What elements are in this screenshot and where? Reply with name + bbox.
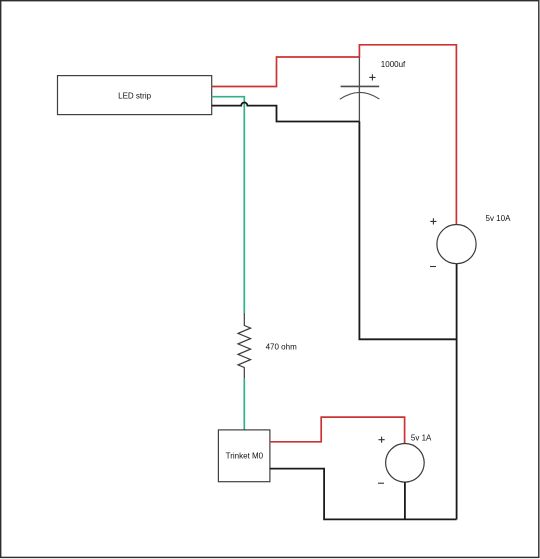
capacitor C1 1000uf (340, 57, 380, 122)
wire black: Trinket M0 - to bottom rail (270, 469, 457, 520)
Trinket M0 module (218, 430, 270, 482)
wire black: LED strip - to capacitor bottom (hop over green) (212, 103, 360, 122)
svg-text:470 ohm: 470 ohm (266, 343, 297, 352)
wire black: capacitor bottom node down to source - column (359, 122, 456, 340)
wire black: source 5v1A - to bottom rail (404, 482, 406, 519)
wire green: resistor bottom to Trinket M0 (243, 379, 245, 430)
svg-text:1000uf: 1000uf (381, 60, 406, 69)
resistor R1 470 ohm (238, 313, 251, 379)
svg-text:Trinket M0: Trinket M0 (226, 452, 264, 461)
svg-text:LED strip: LED strip (118, 91, 151, 100)
LED strip module (58, 76, 212, 115)
wire red: Trinket M0 + to source 5v1A (270, 417, 405, 443)
wire black: source 5v10A - down to bottom rail (456, 264, 458, 520)
svg-text:5v 1A: 5v 1A (411, 434, 432, 443)
power source U2 5v 1A (378, 437, 424, 484)
power source U1 5v 10A (430, 218, 476, 266)
wire red: LED strip + to capacitor/source node (212, 45, 457, 225)
svg-text:5v 10A: 5v 10A (486, 214, 512, 223)
wire green: LED strip data to resistor top (212, 97, 245, 313)
